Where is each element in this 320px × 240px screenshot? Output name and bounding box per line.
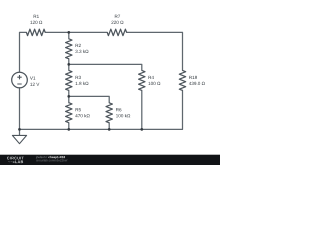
CircuitLab logo <box>7 157 24 163</box>
wire <box>127 32 183 70</box>
resistor R3 <box>66 70 89 90</box>
wire <box>69 96 109 102</box>
wire <box>108 123 110 130</box>
node C <box>67 95 70 98</box>
resistor R2 <box>66 39 89 59</box>
resistor R7 <box>107 15 126 36</box>
resistor R6 <box>106 103 130 123</box>
resistor R18 <box>179 70 205 90</box>
voltage source V1 <box>12 72 40 88</box>
wire <box>20 90 183 129</box>
resistor R4 <box>139 70 161 90</box>
watermark text <box>36 156 67 162</box>
wire <box>141 90 143 129</box>
watermark bar <box>0 155 220 165</box>
wire <box>69 64 142 70</box>
wire <box>68 64 70 70</box>
resistor R5 <box>66 103 90 123</box>
wire <box>68 32 70 38</box>
node R6-rail junction <box>108 128 111 131</box>
ground <box>12 135 26 143</box>
wire <box>45 31 107 33</box>
wire <box>68 90 70 96</box>
wire <box>68 59 70 65</box>
wire <box>68 96 70 102</box>
resistor R1 <box>26 15 45 36</box>
node ground junction <box>18 128 21 131</box>
wire <box>20 32 27 72</box>
node B <box>67 63 70 66</box>
wire <box>19 88 21 136</box>
node A <box>67 31 70 34</box>
wire <box>68 123 70 130</box>
node R5-rail junction <box>67 128 70 131</box>
node R4-rail junction <box>140 128 143 131</box>
